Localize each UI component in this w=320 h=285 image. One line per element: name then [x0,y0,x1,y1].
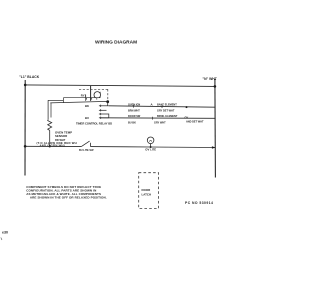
svg-text:BRN WHT: BRN WHT [128,109,140,112]
lamp stem [150,144,152,147]
svg-text:OV LITE: OV LITE [145,148,156,152]
svg-text:WIRING DIAGRAM: WIRING DIAGRAM [95,40,137,46]
coil bar [85,95,87,101]
svg-text:GRY WHT: GRY WHT [154,121,166,124]
svg-text:DOOR SW: DOOR SW [128,115,141,118]
svg-text:BROIL ELEMENT: BROIL ELEMENT [157,115,178,118]
sensor corner vertical [62,98,64,103]
sensor lead to bottom wire [49,130,51,146]
svg-text:e30: e30 [2,231,8,235]
connector dashed box door latch [139,173,159,209]
wire top (L1 to N) [25,85,215,87]
svg-text:+: + [99,90,101,94]
svg-text:AND DET WHT: AND DET WHT [186,120,204,123]
svg-text:ARE SHOWN IN THE OFF OR RELAXE: ARE SHOWN IN THE OFF OR RELAXED POSITION… [30,196,107,200]
resistor oven temp sensor [48,120,52,131]
svg-text:OVEN IGN: OVEN IGN [128,103,140,106]
junction top-right [214,85,217,88]
svg-text:OV: OV [185,116,189,119]
junction bottom-right [212,146,216,149]
sensor bus lower wire [50,101,107,103]
sensor bus upper wire [48,99,64,101]
svg-text:BK: BK [85,104,89,108]
wire bottom right [151,146,216,149]
switch door light SW blade [81,141,89,147]
lamp OV LITE [147,137,154,144]
svg-text:DOOR: DOOR [142,188,152,192]
junction sensor-board [106,100,109,103]
sensor lead down left [47,100,49,119]
svg-text:"L1" BLACK: "L1" BLACK [19,75,40,79]
wire row A to N rail [109,106,215,107]
svg-text:GRY DET WHT: GRY DET WHT [157,109,175,112]
svg-text:TIMER CONTROL RELAY BD: TIMER CONTROL RELAY BD [76,121,112,125]
tick row B [152,117,154,120]
junction bottom-left [24,145,27,148]
sensor upper lead to board [63,97,100,99]
svg-text:"N" WHT: "N" WHT [203,77,218,81]
wire board drop [90,86,92,101]
board outline dashed (timer control relay board) [79,89,109,101]
svg-text:BU BK: BU BK [128,121,136,124]
svg-text:BU: BU [85,116,89,120]
wire bottom left [25,145,81,147]
tick mark [1,238,2,241]
relay coil arc U1 [94,92,101,99]
sensor lead down right [50,103,52,118]
junction sensor-bottom [49,145,51,147]
svg-text:SENSOR: SENSOR [55,134,68,138]
svg-text:PC NO 530914: PC NO 530914 [185,201,213,205]
junction top-left [24,84,27,87]
wire row B to N rail [101,117,216,120]
board pin ticks [100,105,102,119]
tick row A [133,105,135,108]
junction row A right [186,106,188,108]
wire L1 rail [24,80,26,176]
pin ticks on upper lead [86,98,88,100]
wire N rail [214,79,217,178]
switch right terminal [90,143,92,147]
wire bottom mid [91,146,151,148]
board row stubs [99,102,109,118]
svg-text:LATCH: LATCH [142,193,152,197]
svg-text:BAKE ELEMENT: BAKE ELEMENT [157,103,177,106]
svg-text:AND C GRN WH): AND C GRN WH) [40,144,65,148]
svg-text:BU LITE SW: BU LITE SW [79,149,94,152]
note block [26,185,107,200]
